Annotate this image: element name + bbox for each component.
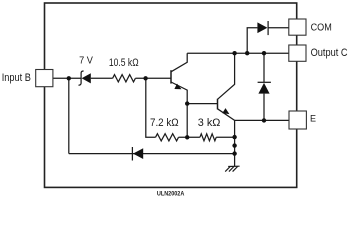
svg-text:7 V: 7 V (79, 56, 93, 67)
resistor R3 3 kOhm (200, 134, 216, 141)
wire emitter column down to ground (234, 120, 236, 166)
wire bottom row from input branch to emitter column (69, 153, 235, 155)
pin box Output C (289, 45, 306, 61)
junction D2 anode on emitter row (262, 118, 266, 122)
resistor R1 10.5 kOhm (113, 75, 136, 82)
wire rail branch up to diode D1 (247, 28, 257, 54)
wire drop from R1 output node down to resistor R2 (146, 78, 156, 137)
junction node on emitter column (232, 143, 236, 147)
diode D3 on bottom row (132, 147, 143, 161)
resistor R2 7.2 kOhm (156, 134, 179, 141)
transistor Q1 (171, 53, 187, 103)
diode D1 to COM (257, 21, 268, 35)
wire resistor row: R2 to R3 (179, 136, 200, 138)
junction Q2 collector on rail (232, 51, 236, 55)
svg-text:Input B: Input B (2, 72, 31, 84)
junction resistor row on emitter column (232, 135, 236, 139)
wire collector rail to Output C (187, 52, 289, 54)
junction D3 row on emitter column (232, 151, 236, 155)
junction R2/R3 node on resistor row (185, 135, 189, 139)
junction D1 branch on rail (245, 51, 249, 55)
svg-text:ULN2002A: ULN2002A (157, 191, 185, 198)
ground (225, 166, 239, 171)
svg-text:COM: COM (311, 22, 332, 34)
wire input row: zener to resistor R1 (91, 77, 113, 79)
wire input row: Input B pin to zener (53, 77, 81, 79)
zener diode Z1 7V (79, 71, 91, 85)
svg-text:3 kΩ: 3 kΩ (198, 117, 221, 129)
svg-text:10.5 kΩ: 10.5 kΩ (109, 57, 139, 69)
wire input branch down to diode D3 row (68, 78, 70, 153)
IC boundary box (45, 3, 297, 187)
junction D2 cathode on rail (262, 51, 266, 55)
junction Q1 emitter / Q2 base node (185, 101, 189, 105)
pin box COM (289, 19, 306, 35)
junction input branch node (67, 76, 71, 80)
diode D2 clamp between emitter row and collector rail (258, 53, 271, 120)
svg-text:7.2 kΩ: 7.2 kΩ (150, 117, 179, 129)
pin box Input B (36, 70, 53, 87)
junction R1 output node (143, 76, 147, 80)
wire input row: resistor R1 to Q1 base (135, 77, 171, 79)
wire emitter row to E pin (235, 119, 289, 121)
svg-text:Output C: Output C (311, 47, 348, 59)
wire D1 cathode to COM pin (268, 27, 289, 29)
pin box E (289, 111, 306, 129)
transistor Q2 (218, 53, 235, 120)
wire Q1 emitter node down to resistor row (186, 104, 188, 138)
wire Q1 emitter to Q2 base (187, 103, 217, 105)
wire resistor row: R3 to emitter column (216, 136, 234, 138)
svg-text:E: E (310, 114, 316, 124)
